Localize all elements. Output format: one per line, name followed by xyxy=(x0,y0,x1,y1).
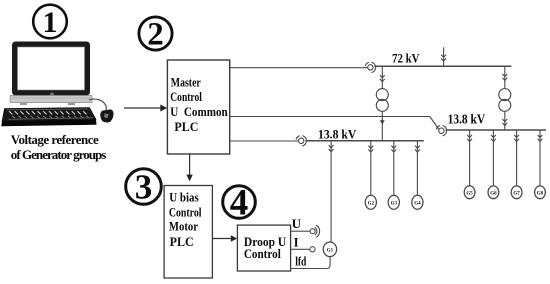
wire: PLC top output to 72kV switch xyxy=(230,67,368,69)
svg-text:Control: Control xyxy=(169,205,202,219)
label circle 1 xyxy=(33,5,67,39)
switch on right 13.8 kV line xyxy=(436,126,446,136)
svg-text:PLC: PLC xyxy=(174,120,198,134)
monitor base xyxy=(10,96,92,106)
svg-text:I: I xyxy=(294,235,299,249)
feeder to G7 xyxy=(514,130,519,186)
arrow U bias to Droop U Control xyxy=(212,235,237,242)
svg-text:G4: G4 xyxy=(414,201,421,206)
wire U output xyxy=(291,230,311,232)
svg-text:Voltage reference: Voltage reference xyxy=(11,132,99,147)
generator G2 xyxy=(365,195,376,209)
label circle 4 xyxy=(223,183,256,224)
switch on left 13.8 kV line xyxy=(296,136,306,146)
generator G3 xyxy=(388,195,399,209)
svg-text:13.8 kV: 13.8 kV xyxy=(318,128,357,142)
arrow computer to master PLC xyxy=(124,105,167,112)
switch on 72 kV line xyxy=(365,62,375,72)
svg-text:G2: G2 xyxy=(368,201,375,206)
keyboard xyxy=(1,108,96,127)
wire lfd output to G1 xyxy=(291,257,331,269)
feeder to G8 xyxy=(538,130,543,186)
svg-text:Master: Master xyxy=(171,75,201,89)
feeder to G3 xyxy=(391,141,396,196)
svg-text:G3: G3 xyxy=(391,201,398,206)
Master Control U Common PLC box xyxy=(167,60,229,154)
svg-text:G8: G8 xyxy=(537,191,544,196)
generator G1 xyxy=(323,242,336,257)
feeder to G5 xyxy=(467,130,472,186)
generator G8 xyxy=(535,186,546,199)
transformer T1 xyxy=(376,89,388,112)
svg-text:13.8 kV: 13.8 kV xyxy=(448,111,486,126)
generator G5 xyxy=(464,186,475,199)
incoming feeder stub on 72kV bus xyxy=(441,47,446,66)
svg-text:U Common: U Common xyxy=(170,105,227,119)
svg-text:U: U xyxy=(292,217,301,231)
transformer T2 xyxy=(499,89,511,112)
svg-text:U bias: U bias xyxy=(169,191,199,205)
Droop U Control box xyxy=(237,225,290,271)
svg-text:2: 2 xyxy=(147,17,164,53)
generator G4 xyxy=(412,195,423,209)
svg-text:72 kV: 72 kV xyxy=(392,51,420,65)
feeder to G4 xyxy=(415,141,420,196)
svg-text:G7: G7 xyxy=(513,191,520,196)
mouse xyxy=(100,109,113,122)
svg-text:G1: G1 xyxy=(327,248,334,253)
svg-text:Motor: Motor xyxy=(169,220,198,234)
generator G6 xyxy=(488,186,499,199)
mouse cable xyxy=(89,99,106,110)
generator G7 xyxy=(511,186,522,199)
svg-text:Control: Control xyxy=(170,90,202,104)
svg-text:4: 4 xyxy=(230,183,249,224)
feeder to G2 xyxy=(368,141,373,196)
arrowhead T1 to left bus xyxy=(380,120,385,124)
svg-text:Control: Control xyxy=(244,247,281,261)
svg-text:3: 3 xyxy=(135,167,153,206)
arrow PLC to U bias box xyxy=(186,154,192,181)
left 13.8 kV bus xyxy=(305,140,423,142)
label circle 2 xyxy=(139,17,172,53)
transformer T2 feeder (72kV to right 13.8kV) xyxy=(502,66,507,130)
U bias Control Motor PLC box xyxy=(164,186,212,279)
caption: Voltage reference of Generator groups xyxy=(11,132,107,162)
svg-text:lfd: lfd xyxy=(295,255,306,269)
right 13.8 kV bus xyxy=(446,129,546,131)
svg-text:G6: G6 xyxy=(490,191,497,196)
feeder to G6 xyxy=(491,130,496,186)
feeder to G1 xyxy=(329,141,334,243)
svg-text:G5: G5 xyxy=(466,191,473,196)
svg-text:1: 1 xyxy=(43,6,58,39)
wire I output xyxy=(291,248,310,250)
computer monitor xyxy=(12,42,90,97)
wire: PLC bottom output to left 13.8kV switch xyxy=(230,140,299,142)
transformer T1 feeder (72kV to left 13.8kV) xyxy=(380,66,385,140)
label circle 3 xyxy=(126,167,162,206)
72 kV bus xyxy=(374,65,511,67)
U probe symbol xyxy=(310,225,320,237)
wire: PLC middle output xyxy=(230,117,439,130)
svg-text:of Generator groups: of Generator groups xyxy=(11,147,107,162)
I terminal circle xyxy=(310,247,315,252)
svg-text:PLC: PLC xyxy=(170,235,194,249)
